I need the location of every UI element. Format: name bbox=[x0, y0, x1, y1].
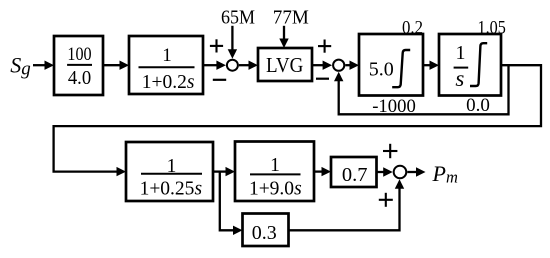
svg-text:1+9.0s: 1+9.0s bbox=[249, 178, 302, 199]
svg-text:1+0.2s: 1+0.2s bbox=[142, 72, 195, 93]
svg-text:1: 1 bbox=[162, 45, 172, 66]
svg-text:0.2: 0.2 bbox=[402, 17, 423, 38]
svg-text:0.0: 0.0 bbox=[466, 95, 490, 116]
svg-text:-1000: -1000 bbox=[372, 96, 416, 117]
svg-text:100: 100 bbox=[67, 44, 91, 65]
svg-text:0.7: 0.7 bbox=[342, 164, 368, 186]
svg-text:1+0.25s: 1+0.25s bbox=[140, 178, 202, 199]
svg-text:1.05: 1.05 bbox=[478, 17, 506, 38]
svg-text:LVG: LVG bbox=[266, 53, 303, 77]
svg-text:65M: 65M bbox=[221, 7, 255, 29]
svg-text:4.0: 4.0 bbox=[68, 68, 91, 89]
svg-text:5.0: 5.0 bbox=[369, 59, 394, 81]
svg-text:1: 1 bbox=[456, 42, 466, 64]
svg-text:1: 1 bbox=[270, 155, 280, 176]
svg-text:0.3: 0.3 bbox=[252, 222, 277, 244]
svg-text:77M: 77M bbox=[273, 7, 309, 29]
svg-text:s: s bbox=[455, 66, 464, 91]
